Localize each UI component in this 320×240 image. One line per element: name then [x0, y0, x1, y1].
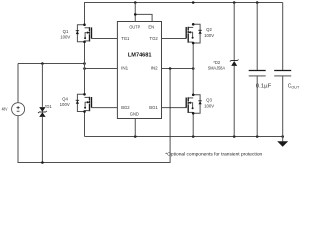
transistor Q1 N-MOSFET top-left: [76, 23, 92, 43]
node OUT+ junction dots on top rail: [134, 1, 259, 4]
wire Q2/Q3 midpoint column (right AC node): [192, 43, 194, 95]
wire D1 top lead: [41, 64, 43, 107]
capacitor C1 0.1uF: [249, 3, 266, 137]
svg-text:*D1: *D1: [45, 104, 53, 109]
wire Q1/Q4 midpoint column (left AC node): [84, 42, 86, 95]
svg-text:48V: 48V: [2, 107, 8, 112]
ground arrow at OUT- rail end: [277, 137, 288, 147]
wire EN pin jog joining OUTP net: [134, 13, 152, 21]
wire top output rail OUT+: [85, 3, 283, 25]
label pin TG2: [150, 36, 159, 41]
wire D1 anode to lower rail: [41, 117, 44, 164]
label *D2 SMAJ58A: [208, 60, 226, 70]
svg-text:IN2: IN2: [151, 65, 159, 70]
svg-text:100V: 100V: [204, 33, 214, 38]
wire left AC input from source to Q1/Q4 midpoint: [18, 62, 86, 65]
wire IN2 pin to right AC node: [162, 67, 195, 70]
wire BG1 pin to Q3 gate: [162, 107, 187, 109]
label Q4: [60, 97, 70, 108]
label Q3: [204, 98, 214, 109]
svg-text:*D2: *D2: [213, 60, 221, 65]
label pin IN2: [151, 65, 159, 70]
label pin BG2: [121, 105, 130, 110]
svg-text:IN1: IN1: [121, 65, 129, 70]
label pin OUTP: [129, 25, 140, 30]
voltage source V1 48V: [12, 103, 25, 116]
svg-text:Q2: Q2: [206, 27, 212, 32]
label pin EN: [148, 25, 154, 30]
label Q1: [60, 29, 70, 40]
wire IN1 pin to left AC node: [83, 67, 117, 70]
node riser crossing bump on bottom rail: [169, 136, 171, 138]
svg-text:*Optional components for trans: *Optional components for transient prote…: [165, 152, 262, 157]
wire bottom output rail OUT-: [85, 136, 283, 138]
svg-text:EN: EN: [148, 25, 154, 30]
svg-text:LM74681: LM74681: [128, 52, 152, 58]
label LM74681 part number: [128, 52, 152, 58]
label Q2: [204, 27, 214, 38]
svg-text:BG1: BG1: [149, 105, 158, 110]
svg-text:GND: GND: [130, 111, 139, 116]
wire BG2 pin to Q4 gate: [92, 107, 118, 109]
label 48V: [2, 107, 8, 112]
svg-text:100V: 100V: [204, 103, 214, 108]
note optional components: [165, 152, 262, 157]
label pin BG1: [149, 105, 158, 110]
wire 48V source top lead: [17, 64, 19, 103]
wire GND pin to bottom rail: [134, 119, 136, 137]
svg-text:TG1: TG1: [121, 36, 130, 41]
svg-text:100V: 100V: [60, 102, 70, 107]
label pin GND: [130, 111, 139, 116]
transistor Q2 N-MOSFET top-right: [186, 23, 202, 44]
wire TG2 pin to Q2 gate: [162, 38, 187, 40]
svg-text:COUT: COUT: [288, 84, 300, 90]
op-amp U1 LM74681 ideal diode bridge controller box: [117, 22, 161, 119]
label pin IN1: [121, 65, 129, 70]
capacitor COUT output bulk: [274, 3, 291, 137]
TVS diode D2 SMAJ58A: [230, 3, 239, 137]
TVS diode D1 bidirectional: [38, 107, 47, 117]
node OUT- junction dots on bottom rail: [134, 135, 284, 138]
svg-text:BG2: BG2: [121, 105, 130, 110]
svg-text:TG2: TG2: [150, 36, 159, 41]
wire OUTP pin to top rail: [134, 3, 136, 22]
wire TG1 pin to Q1 gate: [92, 38, 118, 40]
transistor Q3 N-MOSFET bottom-right: [186, 94, 202, 115]
svg-text:100V: 100V: [60, 34, 70, 39]
transistor Q4 N-MOSFET bottom-left: [76, 93, 92, 113]
svg-text:Q1: Q1: [63, 29, 69, 34]
wire Q3 source to bottom rail: [192, 113, 194, 136]
label *D1: [45, 104, 53, 109]
wire source negative lower return rail: [18, 69, 170, 163]
label 0.1uF: [256, 84, 272, 90]
label COUT: [288, 84, 300, 90]
svg-text:0.1µF: 0.1µF: [256, 84, 272, 90]
svg-text:SMAJ58A: SMAJ58A: [208, 65, 226, 70]
svg-text:Q4: Q4: [62, 97, 68, 102]
wire Q4 source to bottom rail: [84, 112, 86, 137]
label pin TG1: [121, 36, 130, 41]
svg-text:Q3: Q3: [206, 98, 212, 103]
svg-text:OUTP: OUTP: [129, 25, 140, 30]
